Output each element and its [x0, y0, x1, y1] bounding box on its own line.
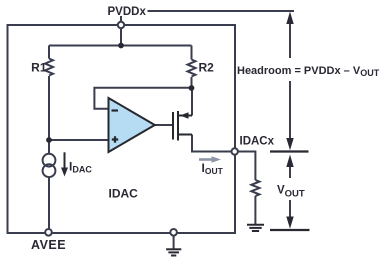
- wire drain up to node: [191, 88, 193, 116]
- wire ground pin stub: [173, 236, 175, 249]
- junction plus input node: [46, 137, 52, 143]
- svg-text:IOUT: IOUT: [202, 161, 224, 176]
- resistor R1: [45, 59, 53, 76]
- dimension VOUT arrow: [286, 155, 293, 229]
- transistor Q1 arrow: [180, 112, 189, 119]
- wire op-amp output to gate: [155, 124, 172, 126]
- svg-text:IDACx: IDACx: [240, 136, 275, 148]
- wire source down and right to IDACx pin: [192, 135, 231, 152]
- svg-text:R1: R1: [31, 61, 47, 75]
- wire load resistor to ground: [254, 196, 256, 224]
- svg-text:Headroom = PVDDx – VOUT: Headroom = PVDDx – VOUT: [237, 65, 380, 78]
- svg-text:IDAC: IDAC: [69, 160, 92, 175]
- wire IDACx pin to load resistor: [238, 152, 255, 181]
- wire PVDDx down to pin: [120, 16, 122, 46]
- svg-text:IDAC: IDAC: [109, 187, 139, 201]
- op-amp U1: [109, 98, 155, 152]
- transistor Q1: [173, 111, 192, 141]
- dimension tick IDACx level: [270, 150, 309, 152]
- pin IDACx: [232, 148, 238, 154]
- current source I1: [43, 154, 56, 167]
- pin AVEE: [45, 229, 52, 236]
- arrow IDAC: [61, 152, 68, 176]
- svg-text:VOUT: VOUT: [277, 185, 305, 200]
- wire current source to AVEE pin: [48, 177, 50, 229]
- arrow IOUT (gray): [199, 156, 221, 163]
- pin GND: [170, 229, 177, 236]
- svg-text:R2: R2: [199, 61, 215, 75]
- wire PVDDx rail to headroom arrow: [148, 10, 295, 12]
- wire feedback from drain node to op-amp minus input: [94, 88, 191, 109]
- wire R2 top drop: [191, 46, 193, 60]
- dimension headroom arrow: [286, 12, 293, 151]
- svg-text:AVEE: AVEE: [31, 238, 66, 252]
- junction supply rail: [118, 43, 124, 49]
- wire R1 bottom to node A: [48, 76, 50, 154]
- IDAC block boundary: [8, 25, 236, 233]
- ground G1 (inside block): [166, 248, 181, 250]
- resistor RLOAD: [251, 180, 259, 196]
- wire R1 top drop: [48, 46, 50, 59]
- resistor R2: [188, 60, 196, 77]
- ground G2 (load): [247, 224, 264, 226]
- pin PVDDx: [118, 22, 124, 28]
- dimension tick bottom: [270, 229, 310, 231]
- wire internal supply rail: [49, 45, 192, 47]
- svg-text:PVDDx: PVDDx: [108, 6, 147, 18]
- wire R2 bottom to drain node: [191, 77, 193, 88]
- wire op-amp plus input: [49, 139, 109, 141]
- junction drain node: [189, 85, 195, 91]
